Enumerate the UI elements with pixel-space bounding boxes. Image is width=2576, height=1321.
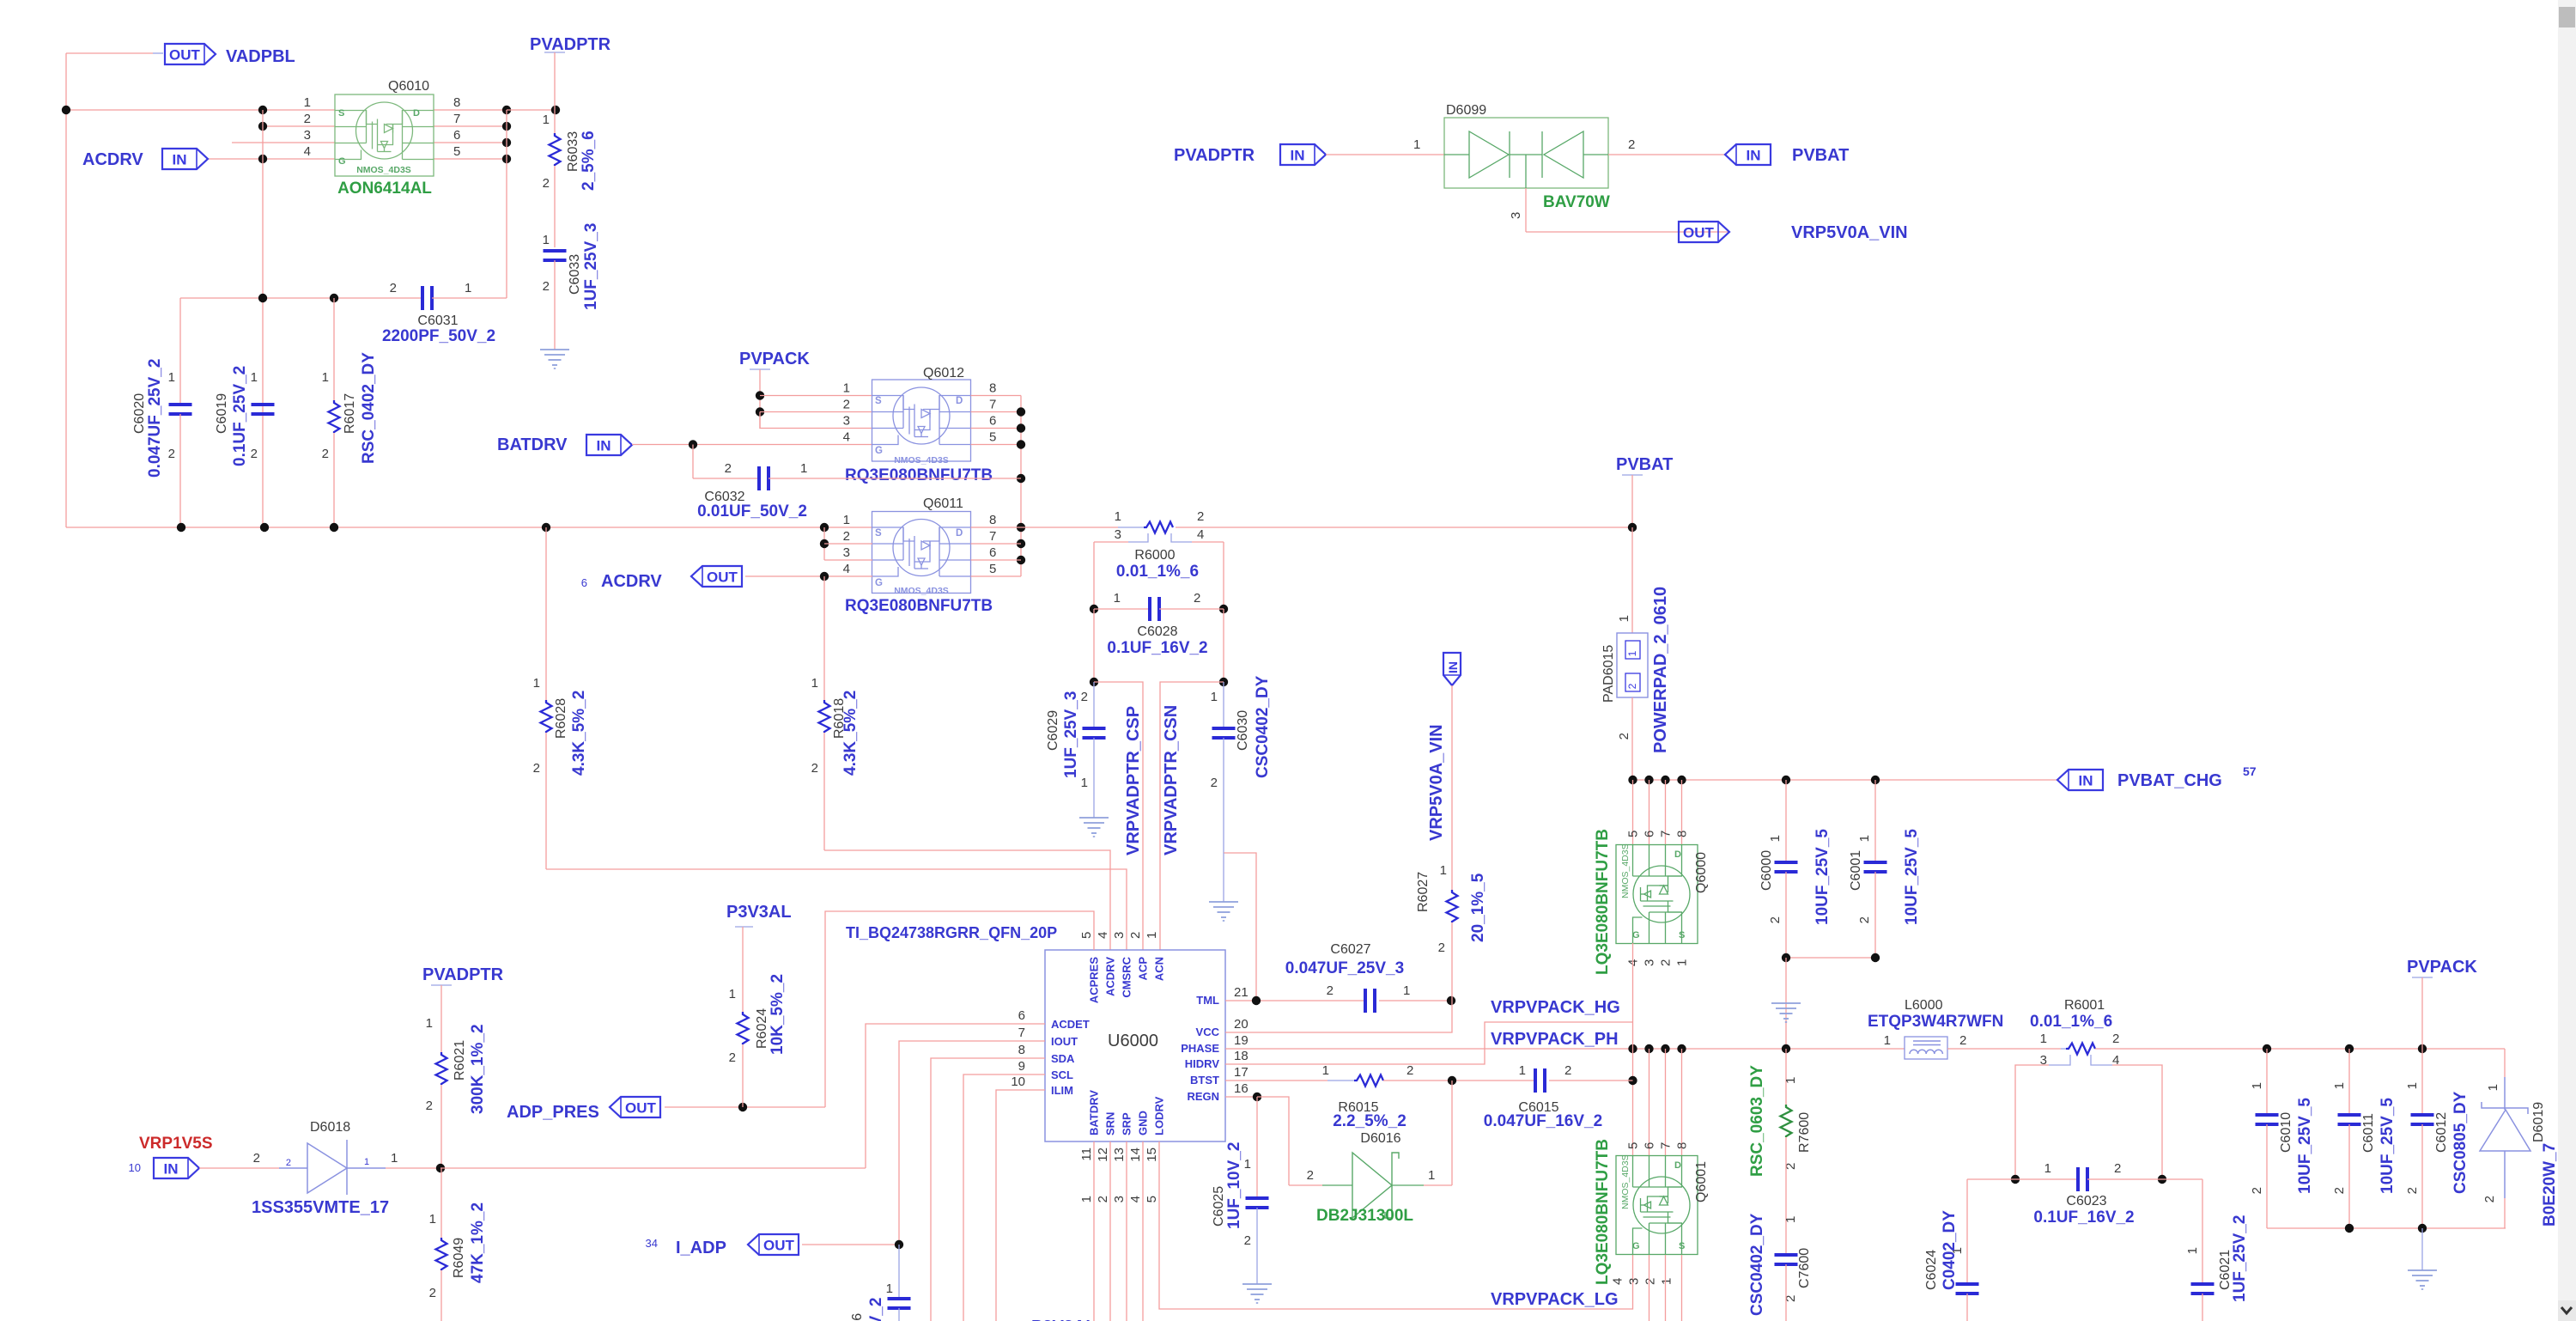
svg-text:ACDRV: ACDRV [82, 150, 143, 169]
svg-text:2: 2 [811, 761, 818, 776]
svg-text:R6001: R6001 [2064, 998, 2105, 1013]
svg-text:R6028: R6028 [554, 698, 568, 739]
svg-text:7: 7 [1659, 1142, 1674, 1149]
svg-text:2: 2 [2482, 1196, 2497, 1202]
svg-text:2: 2 [1628, 137, 1635, 152]
svg-text:8: 8 [989, 381, 996, 396]
svg-text:NMOS_4D3S: NMOS_4D3S [1620, 1154, 1631, 1209]
svg-text:LQ3E080BNFU7TB: LQ3E080BNFU7TB [1594, 829, 1612, 975]
svg-text:10UF_25V_5: 10UF_25V_5 [2379, 1098, 2397, 1194]
svg-text:2: 2 [426, 1099, 433, 1113]
svg-text:2: 2 [1197, 509, 1204, 524]
svg-text:1: 1 [1322, 1063, 1329, 1078]
svg-text:HIDRV: HIDRV [1185, 1057, 1220, 1070]
svg-text:0.047UF_16V_2: 0.047UF_16V_2 [1484, 1112, 1602, 1130]
svg-text:CSC0402_DY: CSC0402_DY [1748, 1213, 1766, 1316]
svg-text:D: D [956, 396, 963, 406]
svg-text:2: 2 [1617, 733, 1631, 740]
svg-text:2: 2 [1564, 1063, 1571, 1078]
svg-text:1: 1 [2185, 1247, 2200, 1254]
svg-text:LODRV: LODRV [1153, 1096, 1166, 1135]
svg-text:C6019: C6019 [215, 393, 229, 434]
svg-text:1: 1 [1857, 835, 1872, 842]
svg-text:5: 5 [1626, 1142, 1641, 1149]
svg-text:1: 1 [2405, 1082, 2420, 1089]
svg-text:RQ3E080BNFU7TB: RQ3E080BNFU7TB [845, 466, 993, 484]
svg-text:1: 1 [1413, 137, 1420, 152]
svg-text:1: 1 [886, 1281, 893, 1296]
svg-text:2: 2 [843, 398, 850, 412]
svg-text:VRPVPACK_PH: VRPVPACK_PH [1491, 1030, 1619, 1049]
svg-text:NMOS_4D3S: NMOS_4D3S [356, 165, 411, 175]
svg-text:2: 2 [2250, 1187, 2264, 1194]
svg-text:20_1%_5: 20_1%_5 [1469, 873, 1487, 942]
svg-text:300K_1%_2: 300K_1%_2 [469, 1024, 487, 1114]
svg-text:1: 1 [1145, 932, 1159, 939]
svg-text:6: 6 [581, 576, 587, 589]
svg-text:6: 6 [1018, 1008, 1025, 1023]
svg-text:18: 18 [1234, 1049, 1249, 1063]
svg-text:16: 16 [1234, 1081, 1249, 1096]
svg-text:C6028: C6028 [1137, 624, 1177, 639]
svg-text:PVBAT_CHG: PVBAT_CHG [2117, 771, 2222, 790]
svg-text:34: 34 [646, 1237, 658, 1250]
svg-text:1: 1 [1081, 776, 1088, 790]
svg-text:C6029: C6029 [1046, 710, 1060, 751]
svg-text:IN: IN [173, 152, 187, 168]
svg-text:ETQP3W4R7WFN: ETQP3W4R7WFN [1868, 1013, 2003, 1031]
svg-text:2: 2 [1959, 1033, 1966, 1048]
svg-text:5: 5 [1145, 1196, 1159, 1202]
svg-text:1: 1 [1675, 959, 1690, 966]
svg-text:5: 5 [1626, 831, 1641, 837]
svg-text:2: 2 [1096, 1196, 1110, 1202]
svg-text:S: S [338, 108, 344, 119]
svg-text:C0402_DY: C0402_DY [1941, 1210, 1959, 1290]
svg-text:2: 2 [1307, 1168, 1314, 1183]
svg-text:57: 57 [2243, 764, 2257, 778]
svg-text:1: 1 [1428, 1168, 1435, 1183]
svg-text:P3V3AL: P3V3AL [726, 903, 792, 922]
svg-text:Q6000: Q6000 [1694, 852, 1709, 893]
svg-text:D: D [1674, 1160, 1681, 1171]
svg-text:2: 2 [1327, 983, 1334, 998]
svg-text:ACDRV: ACDRV [1104, 957, 1117, 996]
svg-text:D6016: D6016 [1360, 1131, 1400, 1146]
svg-text:2: 2 [1438, 941, 1445, 955]
svg-text:IOUT: IOUT [1051, 1035, 1078, 1048]
svg-text:1: 1 [1403, 983, 1410, 998]
svg-text:2: 2 [1128, 932, 1143, 939]
svg-text:BATDRV: BATDRV [1088, 1090, 1101, 1135]
svg-text:10UF_25V_5: 10UF_25V_5 [2296, 1098, 2314, 1194]
svg-text:IN: IN [164, 1161, 179, 1178]
svg-text:B0E20W_7: B0E20W_7 [2541, 1143, 2559, 1227]
svg-text:4: 4 [1096, 932, 1110, 939]
svg-text:6: 6 [1643, 1142, 1657, 1149]
svg-text:2: 2 [390, 281, 397, 295]
svg-text:5: 5 [989, 562, 996, 576]
svg-text:10K_5%_2: 10K_5%_2 [769, 974, 787, 1055]
svg-text:2: 2 [543, 176, 550, 191]
svg-text:2: 2 [168, 447, 175, 461]
svg-text:6: 6 [453, 128, 460, 143]
svg-text:S: S [1679, 1241, 1685, 1251]
svg-text:14: 14 [1128, 1148, 1143, 1162]
svg-text:3: 3 [1112, 932, 1127, 939]
svg-text:S: S [875, 528, 882, 539]
svg-text:1: 1 [1115, 509, 1121, 524]
svg-text:2: 2 [2332, 1187, 2347, 1194]
svg-text:0.1UF_16V_2: 0.1UF_16V_2 [2033, 1208, 2134, 1227]
svg-text:47K_1%_2: 47K_1%_2 [469, 1202, 487, 1283]
svg-text:1: 1 [1783, 1216, 1798, 1223]
svg-text:Q6001: Q6001 [1694, 1161, 1709, 1202]
svg-text:1: 1 [2332, 1082, 2347, 1089]
svg-text:GND: GND [1137, 1111, 1150, 1135]
svg-text:POWERPAD_2_0610: POWERPAD_2_0610 [1651, 587, 1670, 753]
svg-text:VRP1V5S: VRP1V5S [139, 1135, 213, 1153]
svg-text:OUT: OUT [169, 47, 201, 64]
svg-text:10UF_25V_5: 10UF_25V_5 [1814, 829, 1832, 925]
svg-text:4: 4 [304, 144, 311, 159]
svg-text:10: 10 [1011, 1074, 1025, 1089]
svg-text:C6033: C6033 [568, 254, 582, 295]
svg-text:2: 2 [1244, 1233, 1251, 1248]
svg-text:2.2_5%_2: 2.2_5%_2 [1333, 1112, 1406, 1130]
svg-text:12: 12 [1096, 1148, 1110, 1162]
svg-text:OUT: OUT [1683, 225, 1715, 241]
svg-text:3: 3 [1115, 527, 1121, 542]
svg-text:C6000: C6000 [1759, 850, 1774, 891]
svg-text:1: 1 [322, 370, 329, 385]
svg-text:1: 1 [1211, 690, 1218, 704]
svg-text:PVBAT: PVBAT [1792, 146, 1849, 165]
svg-text:2: 2 [2405, 1187, 2420, 1194]
svg-text:C6011: C6011 [2361, 1113, 2376, 1153]
svg-text:15: 15 [1145, 1148, 1159, 1162]
svg-text:1UF_10V_2: 1UF_10V_2 [1225, 1142, 1243, 1229]
svg-text:0.1UF_25V_2: 0.1UF_25V_2 [231, 366, 249, 466]
svg-text:4: 4 [843, 562, 850, 576]
svg-text:1UF_25V_3: 1UF_25V_3 [1062, 691, 1080, 778]
svg-text:PHASE: PHASE [1181, 1042, 1219, 1055]
svg-text:1: 1 [543, 233, 550, 247]
svg-text:BATDRV: BATDRV [497, 435, 568, 454]
svg-text:1: 1 [843, 513, 850, 527]
svg-text:ACDET: ACDET [1051, 1018, 1090, 1031]
svg-text:2: 2 [286, 1158, 291, 1168]
svg-text:1: 1 [533, 676, 540, 691]
svg-text:VRP5V0A_VIN: VRP5V0A_VIN [1791, 223, 1908, 242]
svg-text:OUT: OUT [625, 1100, 657, 1117]
svg-text:IN: IN [597, 438, 611, 454]
svg-text:RQ3E080BNFU7TB: RQ3E080BNFU7TB [845, 597, 993, 615]
svg-text:NMOS_4D3S: NMOS_4D3S [894, 455, 949, 466]
svg-text:AON6414AL: AON6414AL [337, 180, 432, 198]
svg-text:4.3K_5%_2: 4.3K_5%_2 [841, 691, 860, 776]
svg-text:0.047UF_25V_2: 0.047UF_25V_2 [146, 359, 164, 478]
svg-text:0.01UF_50V_2: 0.01UF_50V_2 [697, 502, 807, 520]
svg-text:0.047UF_25V_3: 0.047UF_25V_3 [1285, 959, 1404, 977]
svg-text:1: 1 [1884, 1033, 1891, 1048]
svg-text:2: 2 [1081, 690, 1088, 704]
svg-text:1: 1 [1440, 863, 1447, 878]
svg-text:9: 9 [1018, 1059, 1025, 1074]
svg-text:C6020: C6020 [132, 393, 147, 434]
svg-text:2: 2 [843, 529, 850, 544]
svg-text:5: 5 [989, 430, 996, 445]
svg-text:PVPACK: PVPACK [2407, 958, 2477, 977]
svg-text:IN: IN [1291, 148, 1305, 164]
svg-text:U6000: U6000 [1108, 1032, 1158, 1050]
svg-text:VRP5V0A_VIN: VRP5V0A_VIN [1427, 724, 1446, 841]
svg-text:PVADPTR: PVADPTR [422, 965, 504, 984]
svg-text:2_5%_6: 2_5%_6 [580, 131, 598, 191]
svg-text:D6099: D6099 [1446, 103, 1486, 118]
svg-text:C6012: C6012 [2434, 1112, 2449, 1153]
svg-text:1: 1 [1114, 591, 1121, 606]
svg-text:PAD6015: PAD6015 [1601, 645, 1616, 703]
svg-text:2: 2 [1768, 916, 1783, 923]
svg-text:1: 1 [543, 113, 550, 127]
svg-text:19: 19 [1234, 1033, 1249, 1048]
svg-text:Q6012: Q6012 [923, 366, 964, 380]
svg-text:VCC: VCC [1196, 1026, 1220, 1038]
svg-text:1: 1 [1519, 1063, 1526, 1078]
svg-text:8: 8 [989, 513, 996, 527]
svg-text:5: 5 [453, 144, 460, 159]
svg-text:8: 8 [1675, 1142, 1690, 1149]
svg-text:R6049: R6049 [452, 1238, 466, 1278]
svg-text:R7600: R7600 [1797, 1112, 1812, 1153]
svg-text:RSC_0402_DY: RSC_0402_DY [360, 352, 378, 464]
svg-text:SDA: SDA [1051, 1052, 1075, 1065]
svg-text:D: D [956, 528, 963, 539]
svg-text:1: 1 [2486, 1084, 2500, 1091]
svg-text:8: 8 [1018, 1043, 1025, 1057]
svg-text:1SS355VMTE_17: 1SS355VMTE_17 [252, 1198, 389, 1217]
svg-text:PVADPTR: PVADPTR [530, 35, 611, 54]
svg-text:4.3K_5%_2: 4.3K_5%_2 [570, 691, 588, 776]
svg-text:1: 1 [429, 1212, 436, 1227]
svg-text:1: 1 [1617, 615, 1631, 622]
svg-text:SRN: SRN [1104, 1112, 1117, 1135]
svg-text:D: D [1674, 849, 1681, 860]
svg-text:21: 21 [1234, 985, 1249, 1000]
svg-text:IN: IN [1446, 661, 1460, 673]
svg-text:2: 2 [725, 461, 732, 476]
svg-text:Q6010: Q6010 [388, 79, 429, 94]
svg-text:CSC0805_DY: CSC0805_DY [2451, 1091, 2470, 1194]
svg-text:6: 6 [989, 414, 996, 429]
svg-text:1: 1 [391, 1151, 398, 1166]
svg-text:IN: IN [1747, 148, 1761, 164]
svg-text:R6021: R6021 [453, 1040, 467, 1081]
svg-text:R6017: R6017 [343, 393, 357, 434]
svg-text:TI_BQ24738RGRR_QFN_20P: TI_BQ24738RGRR_QFN_20P [846, 924, 1057, 941]
svg-text:1: 1 [843, 381, 850, 396]
svg-text:2: 2 [2112, 1032, 2119, 1046]
svg-text:4: 4 [1611, 1278, 1625, 1285]
svg-text:PVADPTR: PVADPTR [1174, 146, 1255, 165]
svg-text:R6033: R6033 [566, 131, 580, 172]
svg-text:NMOS_4D3S: NMOS_4D3S [894, 586, 949, 596]
svg-text:C6001: C6001 [1849, 850, 1863, 891]
svg-text:D: D [413, 108, 420, 119]
svg-text:CMSRC: CMSRC [1121, 956, 1133, 997]
svg-text:4: 4 [1128, 1196, 1143, 1202]
svg-text:I_ADP: I_ADP [676, 1239, 726, 1257]
svg-text:2: 2 [304, 112, 311, 126]
svg-text:R6024: R6024 [755, 1008, 769, 1049]
svg-text:3: 3 [1627, 1278, 1642, 1285]
svg-text:VRPVADPTR_CSP: VRPVADPTR_CSP [1124, 706, 1143, 855]
svg-text:2: 2 [1643, 1278, 1658, 1285]
svg-text:G: G [875, 578, 883, 588]
svg-text:C6023: C6023 [2066, 1194, 2106, 1208]
svg-text:2: 2 [253, 1151, 260, 1166]
svg-text:8: 8 [453, 95, 460, 110]
svg-text:ACP: ACP [1137, 957, 1150, 981]
svg-text:5: 5 [1079, 932, 1094, 939]
svg-text:Q6011: Q6011 [923, 496, 963, 511]
svg-text:G: G [1632, 1241, 1640, 1251]
svg-text:BAV70W: BAV70W [1543, 193, 1610, 211]
svg-text:NMOS_4D3S: NMOS_4D3S [1620, 843, 1631, 898]
svg-text:OUT: OUT [763, 1238, 795, 1254]
svg-text:1: 1 [1768, 835, 1783, 842]
svg-text:13: 13 [1112, 1148, 1127, 1162]
svg-text:VRPVPACK_HG: VRPVPACK_HG [1491, 998, 1620, 1017]
svg-text:G: G [338, 156, 346, 167]
svg-text:VRPVPACK_LG: VRPVPACK_LG [1491, 1290, 1619, 1309]
svg-text:C6027: C6027 [1330, 942, 1370, 957]
svg-text:0.01_1%_6: 0.01_1%_6 [1116, 563, 1199, 581]
svg-text:20: 20 [1234, 1017, 1249, 1032]
svg-text:10: 10 [129, 1161, 141, 1174]
svg-text:P3V3AL: P3V3AL [1031, 1318, 1097, 1321]
svg-text:1: 1 [729, 987, 736, 1001]
svg-text:C6010: C6010 [2279, 1112, 2293, 1153]
svg-text:2: 2 [1857, 916, 1872, 923]
svg-text:1: 1 [1626, 650, 1638, 656]
svg-text:1UF_10V_2: 1UF_10V_2 [867, 1298, 885, 1321]
svg-text:2: 2 [2114, 1161, 2121, 1176]
svg-text:REGN: REGN [1187, 1090, 1219, 1103]
svg-text:2: 2 [322, 447, 329, 461]
svg-text:ACDRV: ACDRV [601, 572, 662, 591]
svg-text:1: 1 [2044, 1161, 2051, 1176]
svg-text:VADPBL: VADPBL [226, 47, 295, 66]
svg-text:1UF_25V_2: 1UF_25V_2 [2231, 1215, 2249, 1302]
svg-text:RSC_0603_DY: RSC_0603_DY [1748, 1065, 1766, 1177]
svg-text:C6030: C6030 [1236, 710, 1250, 751]
svg-text:1: 1 [304, 95, 311, 110]
svg-text:3: 3 [843, 545, 850, 560]
svg-text:1: 1 [1079, 1196, 1094, 1202]
svg-text:2: 2 [429, 1286, 436, 1300]
svg-text:OUT: OUT [707, 569, 738, 586]
svg-text:G: G [1632, 930, 1640, 941]
svg-text:C7600: C7600 [1797, 1248, 1812, 1288]
svg-text:8: 8 [1675, 831, 1690, 837]
svg-text:R6000: R6000 [1134, 548, 1175, 563]
svg-text:1: 1 [465, 281, 471, 295]
svg-text:6: 6 [1643, 831, 1657, 837]
svg-text:6: 6 [989, 545, 996, 560]
svg-text:C6024: C6024 [1924, 1250, 1939, 1290]
svg-text:3: 3 [1112, 1196, 1127, 1202]
svg-text:7: 7 [989, 398, 996, 412]
svg-text:1: 1 [1244, 1157, 1251, 1172]
svg-text:2: 2 [1406, 1063, 1413, 1078]
svg-text:DB2J31300L: DB2J31300L [1316, 1207, 1413, 1225]
svg-text:2: 2 [1659, 959, 1674, 966]
svg-text:4: 4 [1197, 527, 1204, 542]
svg-text:0.01_1%_6: 0.01_1%_6 [2030, 1013, 2112, 1031]
svg-text:1: 1 [251, 370, 258, 385]
svg-text:D6018: D6018 [310, 1120, 350, 1135]
svg-text:0.1UF_16V_2: 0.1UF_16V_2 [1107, 639, 1207, 657]
svg-text:2200PF_50V_2: 2200PF_50V_2 [382, 327, 495, 345]
svg-text:2: 2 [543, 279, 550, 294]
svg-text:1: 1 [2250, 1082, 2264, 1089]
svg-text:PVPACK: PVPACK [739, 350, 810, 368]
svg-text:7: 7 [989, 529, 996, 544]
svg-text:1: 1 [168, 370, 175, 385]
svg-text:S: S [875, 396, 882, 406]
svg-text:3: 3 [1509, 212, 1523, 219]
svg-text:C6031: C6031 [417, 314, 458, 328]
svg-text:L6000: L6000 [1905, 998, 1943, 1013]
svg-text:3: 3 [1643, 959, 1657, 966]
svg-text:7: 7 [453, 112, 460, 126]
svg-text:ILIM: ILIM [1051, 1084, 1073, 1097]
svg-text:1: 1 [800, 461, 807, 476]
svg-text:SRP: SRP [1121, 1112, 1133, 1135]
svg-text:S: S [1679, 930, 1685, 941]
svg-text:D6019: D6019 [2531, 1102, 2546, 1142]
svg-text:1: 1 [426, 1016, 433, 1031]
svg-text:2: 2 [533, 761, 540, 776]
svg-text:PVBAT: PVBAT [1616, 455, 1673, 474]
svg-text:1: 1 [811, 676, 818, 691]
svg-text:1UF_25V_3: 1UF_25V_3 [582, 223, 600, 310]
svg-text:3: 3 [304, 128, 311, 143]
svg-text:CSC0402_DY: CSC0402_DY [1254, 675, 1272, 778]
svg-text:1: 1 [1660, 1278, 1674, 1285]
svg-text:3: 3 [843, 414, 850, 429]
svg-text:C6025: C6025 [1212, 1186, 1226, 1227]
svg-text:1: 1 [364, 1157, 369, 1167]
svg-text:2: 2 [1626, 683, 1638, 689]
svg-text:ACPRES: ACPRES [1088, 957, 1101, 1004]
svg-text:2: 2 [1194, 591, 1200, 606]
svg-text:LQ3E080BNFU7TB: LQ3E080BNFU7TB [1594, 1139, 1612, 1285]
svg-text:TML: TML [1196, 994, 1219, 1007]
svg-text:1: 1 [2040, 1032, 2047, 1046]
svg-text:2: 2 [1211, 776, 1218, 790]
svg-text:2: 2 [729, 1050, 736, 1065]
svg-text:ADP_PRES: ADP_PRES [507, 1103, 599, 1122]
svg-text:2: 2 [251, 447, 258, 461]
svg-text:G: G [875, 446, 883, 456]
svg-text:11: 11 [1079, 1148, 1094, 1161]
svg-text:1: 1 [1783, 1077, 1798, 1084]
svg-text:C6046: C6046 [850, 1313, 865, 1321]
svg-text:IN: IN [2079, 773, 2093, 789]
